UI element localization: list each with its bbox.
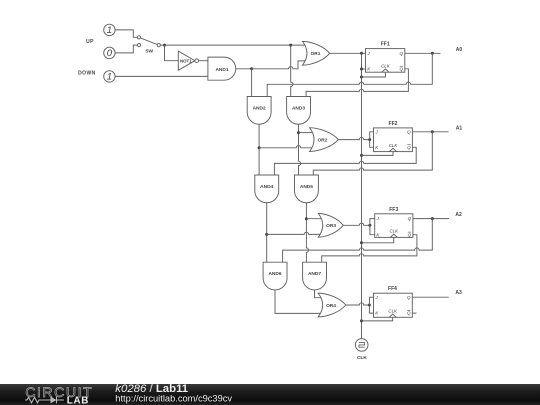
and-gate AND7 <box>303 262 327 290</box>
source V1 (UP high constant 1) <box>104 24 115 35</box>
flip-flop FF3 body <box>375 214 413 238</box>
wire FF4 Q to A3 <box>412 296 448 298</box>
or-gate OR1 <box>303 41 330 65</box>
svg-text:LAB: LAB <box>67 396 89 405</box>
flip-flop FF4 body <box>374 293 413 317</box>
svg-text:1: 1 <box>107 25 112 36</box>
logo diode bar and leads <box>45 397 65 404</box>
wire AND5 output chain down to AND7 left input (hops y=234.4, y=250.1) <box>306 203 308 262</box>
and-gate AND3 <box>287 97 311 125</box>
source V0 (UP low constant 0) <box>104 47 115 58</box>
svg-text:AND6: AND6 <box>268 271 281 277</box>
svg-text:A3: A3 <box>455 290 462 296</box>
node CLK3 on bus <box>360 241 363 244</box>
node Q3 junction <box>431 217 434 220</box>
node Q2 junction <box>431 130 434 133</box>
clock source waveform glyph <box>359 343 365 348</box>
wire FF3 Q to A2 <box>413 218 449 220</box>
svg-text:Q: Q <box>407 311 411 316</box>
wire AND4 output chain down to AND6 left input <box>266 203 268 262</box>
node switch output junction <box>163 44 166 47</box>
source V2 (DOWN constant 1) <box>104 71 115 82</box>
svg-text:OR2: OR2 <box>318 137 328 143</box>
svg-text:OR4: OR4 <box>326 303 336 309</box>
svg-text:A2: A2 <box>455 212 462 218</box>
svg-text:SW: SW <box>145 48 153 54</box>
svg-text:OR1: OR1 <box>311 51 321 57</box>
node K1 on bus <box>360 68 363 71</box>
FF1 pin labels <box>366 51 411 316</box>
svg-text:NOT1: NOT1 <box>180 59 192 64</box>
wire AND7 output to OR4 upper input <box>315 290 323 298</box>
wire FF1 CLK to bus <box>362 72 386 77</box>
wire switch common to node <box>160 44 164 46</box>
svg-text:A0: A0 <box>456 47 463 53</box>
svg-text:Q: Q <box>399 51 403 56</box>
wire switch node down to NOT1 input <box>165 45 179 61</box>
svg-text:DOWN: DOWN <box>78 71 95 77</box>
wire FF4 JK bracket <box>369 297 373 313</box>
logo diode symbol <box>51 397 57 404</box>
node AND4 output to OR3 lower input <box>265 233 268 236</box>
overline of FF1 Qbar <box>400 65 403 67</box>
svg-text:CLK: CLK <box>357 355 367 361</box>
or-gate OR2 <box>310 128 339 152</box>
wire AND1 output to junction <box>236 68 252 70</box>
and-gate AND2 <box>247 97 271 125</box>
FF4 clock edge triangle <box>389 314 396 317</box>
and-gate AND5 <box>295 175 319 203</box>
inverter NOT1 <box>178 51 195 70</box>
svg-text:AND5: AND5 <box>300 184 313 190</box>
svg-text:AND3: AND3 <box>292 106 305 112</box>
node AND3 output to OR2 upper input <box>297 131 300 134</box>
wire OR2 output to FF2 JK bracket (hop over bus) <box>338 137 369 139</box>
wire FF3 JK bracket <box>370 219 375 235</box>
svg-text:FF2: FF2 <box>389 121 398 127</box>
svg-text:AND7: AND7 <box>308 271 321 277</box>
svg-text:Q: Q <box>407 295 411 300</box>
wire clock bus vertical <box>361 53 363 338</box>
wire OR1 output to FF1 J/K tie <box>330 52 362 54</box>
wire V1 to switch T1 <box>115 30 137 37</box>
FF2 clock edge triangle <box>389 148 396 151</box>
wire FF1 Qbar feedback to AND3 right input (hop over bus) <box>306 69 408 97</box>
wire FF3 CLK to bus <box>362 237 394 242</box>
NOT1 output bubble <box>195 59 199 63</box>
svg-text:Q: Q <box>408 232 412 237</box>
node OR1-input / AND3 tap <box>289 44 292 47</box>
node JK4 tie <box>368 304 371 307</box>
node JK3 tie <box>368 224 371 227</box>
or-gate OR4 <box>318 293 346 317</box>
flip-flop FF2 body <box>374 128 413 152</box>
wire Q2 feedback to AND5 right input (hop over bus) <box>313 132 432 175</box>
svg-text:UP: UP <box>86 39 94 45</box>
wire AND3 left input (from top rail, hop over y=84.3) <box>291 45 293 96</box>
and-gate AND6 <box>263 262 287 290</box>
switch SW terminal 2 <box>137 44 140 47</box>
switch SW blade <box>140 38 157 45</box>
svg-text:AND2: AND2 <box>253 106 266 112</box>
svg-text:FF3: FF3 <box>389 207 398 213</box>
wire AND5 out to OR3 upper input <box>306 218 322 220</box>
footer bar background <box>0 384 540 405</box>
wire AND2 out to OR2 lower input (hop over x=298.5) <box>259 146 314 148</box>
node CLK4 on bus <box>360 319 363 322</box>
svg-text:Q: Q <box>407 145 411 150</box>
wire FF4 Qbar stub <box>412 312 416 314</box>
svg-text:1: 1 <box>107 72 112 83</box>
svg-text:OR3: OR3 <box>326 223 336 229</box>
node CLK2 on bus <box>360 154 363 157</box>
node AND2 output to OR2 lower input <box>258 146 261 149</box>
wire Q3 feedback to AND6 right input (hops over 416.9 and bus) <box>283 219 433 263</box>
overline of FF3 Qbar <box>408 231 411 233</box>
node Q1 junction <box>431 52 434 55</box>
FF1 clock edge triangle <box>382 69 389 72</box>
switch SW terminal 1 <box>137 36 140 39</box>
svg-text:FF4: FF4 <box>388 286 397 292</box>
wire FF1 J pin stub <box>362 52 366 54</box>
wire FF4 CLK to bus <box>362 317 393 321</box>
svg-text:A1: A1 <box>456 126 463 132</box>
wire AND3 output chain down to AND5 left input (hops y=147.8, y=163.4) <box>299 124 301 175</box>
wire V0 to switch T2 <box>115 45 137 53</box>
wire top rail to OR1 upper input <box>165 44 308 46</box>
svg-text:Q: Q <box>407 129 411 134</box>
svg-text:CLK: CLK <box>388 309 398 314</box>
or-gate OR3 <box>318 213 343 237</box>
logo waveform resistor zigzag <box>25 397 45 403</box>
FF3 clock edge triangle <box>390 234 397 237</box>
overline of FF4 Qbar <box>407 310 410 312</box>
svg-text:Q: Q <box>399 66 403 71</box>
wire Q1 feedback to AND2 right input (hops over 408.4 and bus) <box>267 53 432 96</box>
wire FF1 K pin stub <box>362 68 366 70</box>
wire AND1 out to OR1 lower input (hop over x=290.7) <box>252 61 307 69</box>
wire AND1 junction down to AND2 left input <box>251 69 253 97</box>
wire AND4 out to OR3 lower input (hop over x=306.4) <box>267 232 323 234</box>
node J1 tie <box>360 52 363 55</box>
node CLK1 on bus <box>360 76 363 79</box>
svg-text:AND1: AND1 <box>215 67 228 73</box>
svg-text:CLK: CLK <box>390 229 400 234</box>
node AND1 output junction <box>250 67 253 70</box>
svg-text:AND4: AND4 <box>260 184 273 190</box>
and-gate AND1 <box>208 57 236 80</box>
node AND5 output to OR3 upper input <box>305 217 308 220</box>
wire DOWN source to AND1 lower input <box>115 75 208 77</box>
wire FF2 JK bracket <box>370 132 374 148</box>
wire FF3 Qbar feedback to AND7 right input (hop over bus) <box>322 235 417 263</box>
svg-text:0: 0 <box>107 48 113 59</box>
wire FF2 Q to A1 <box>412 131 448 133</box>
wire FF2 Qbar feedback to AND4 right input (hop over bus) <box>274 147 416 175</box>
switch SW common terminal <box>157 44 160 47</box>
wire OR3 output to FF3 JK bracket (hop over bus) <box>343 223 370 225</box>
and-gate AND4 <box>255 175 279 203</box>
wire FF2 CLK to bus <box>362 152 394 156</box>
svg-text:CLK: CLK <box>389 143 399 148</box>
clock source CLK circle <box>355 339 368 352</box>
svg-text:FF1: FF1 <box>381 42 390 48</box>
wire AND6 output to OR4 lower input <box>275 290 323 313</box>
wire FF1 Q to A0 <box>405 52 441 54</box>
wire NOT1 output to AND1 upper input <box>199 60 208 62</box>
wire AND3 out to OR2 upper input <box>299 132 314 134</box>
overline of FF2 Qbar <box>407 144 410 146</box>
svg-text:http://circuitlab.com/c9c39cv: http://circuitlab.com/c9c39cv <box>115 393 232 403</box>
node JK2 tie <box>368 138 371 141</box>
flip-flop FF1 body <box>366 49 405 73</box>
wire OR4 output to FF4 JK bracket (hop over bus) <box>346 303 370 305</box>
wire AND2 output chain down to AND4 left input <box>258 124 260 175</box>
svg-text:Q: Q <box>408 216 412 221</box>
svg-text:CLK: CLK <box>381 63 391 68</box>
